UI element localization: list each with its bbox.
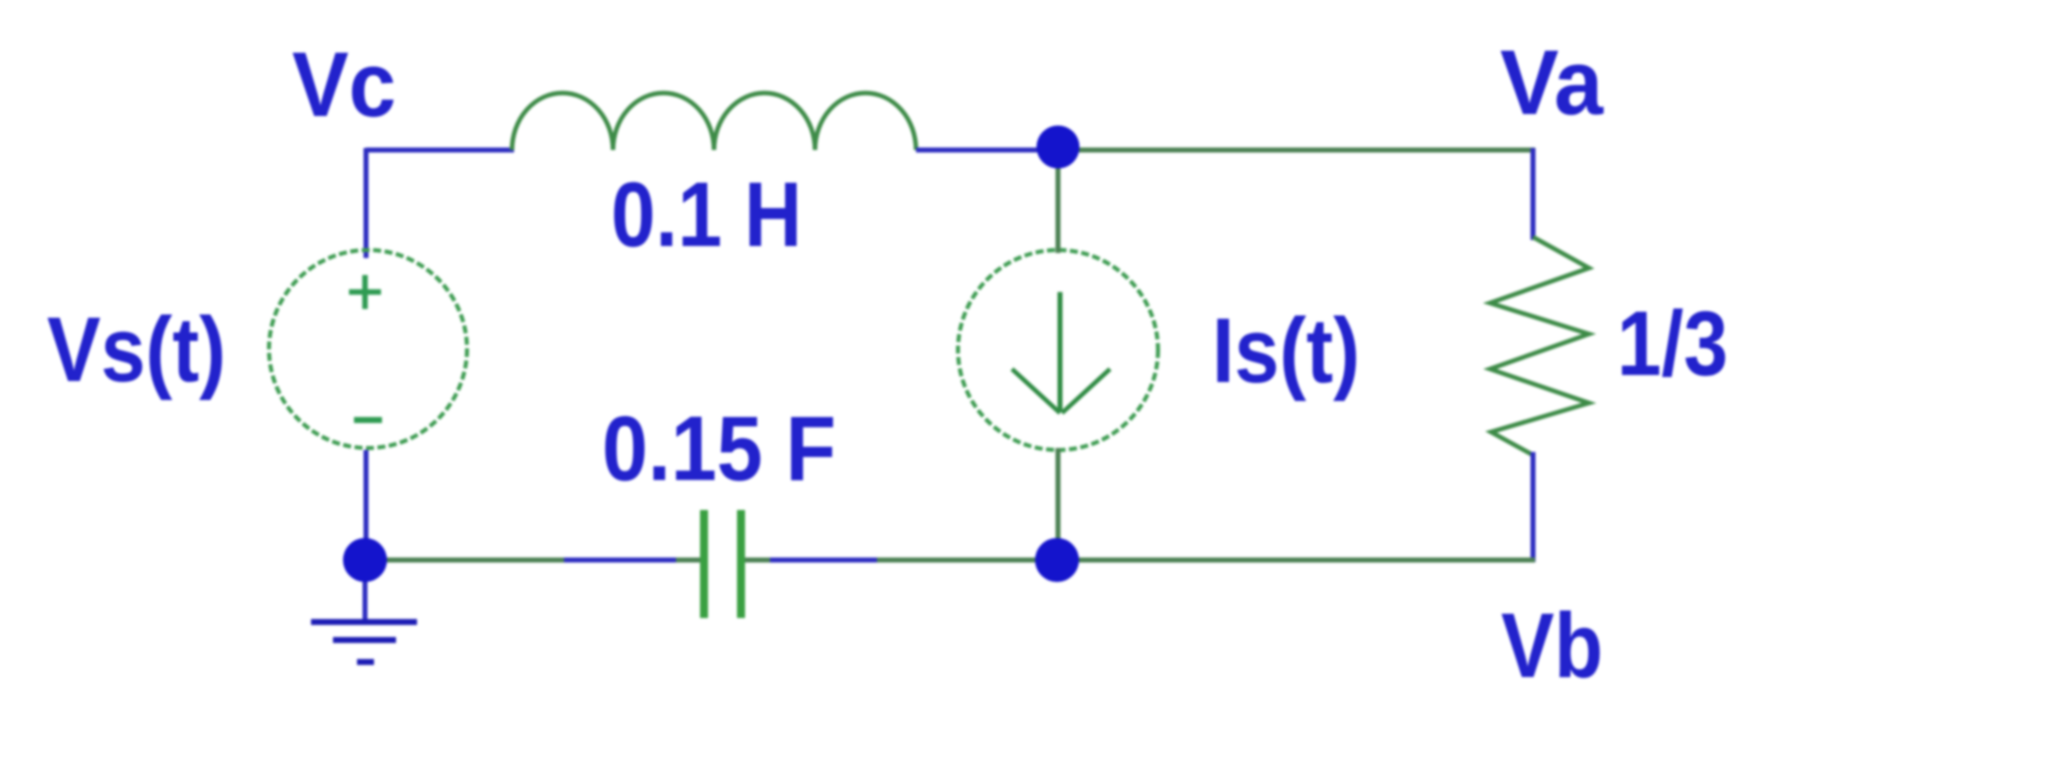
- voltage source Vs circle (green): [269, 250, 467, 448]
- wire Vc vertical down to source (blue): [364, 148, 369, 258]
- wire inductor to node A (blue): [916, 148, 1045, 153]
- wire Vc top horizontal (blue): [366, 148, 514, 153]
- wire ground stem (blue): [363, 560, 368, 622]
- wire bottom right corner to node B (green): [1057, 558, 1535, 563]
- wire node A to top-right corner (green): [1058, 148, 1535, 153]
- voltage source minus sign: [354, 417, 382, 423]
- svg-text:Va: Va: [1500, 32, 1604, 134]
- current source arrow shaft: [1058, 292, 1063, 412]
- svg-text:Vc: Vc: [292, 34, 396, 136]
- voltage source plus sign: [349, 275, 381, 309]
- wire capacitor left plate to node G (green): [365, 558, 702, 563]
- svg-text:Is(t): Is(t): [1212, 300, 1360, 402]
- wire current source down to node B (green): [1056, 448, 1061, 560]
- svg-text:1/3: 1/3: [1617, 293, 1728, 395]
- wire blue overlay right of capacitor: [770, 558, 877, 563]
- svg-text:Vs(t): Vs(t): [47, 299, 226, 401]
- wire node B to capacitor right plate (green): [743, 558, 1057, 563]
- ground symbol (blue bars): [311, 619, 417, 625]
- svg-text:0.15 F: 0.15 F: [602, 398, 836, 500]
- capacitor C1 0.15 F plates (green): [700, 510, 708, 618]
- current source arrowhead: [1012, 369, 1110, 413]
- svg-text:Vb: Vb: [1501, 595, 1603, 697]
- wire blue overlay left of capacitor: [564, 558, 676, 563]
- wire resistor bottom to bottom-right corner (blue): [1531, 452, 1536, 562]
- resistor R1 1/3 zigzag (green): [1490, 237, 1589, 455]
- svg-text:0.1 H: 0.1 H: [611, 164, 802, 266]
- wire source bottom to ground node (blue): [364, 450, 369, 562]
- current source Is circle (green): [958, 250, 1158, 450]
- wire top-right corner down to resistor (blue): [1531, 148, 1536, 240]
- inductor L1 0.1 H (green humps): [512, 93, 916, 150]
- node G junction dot: [343, 538, 387, 582]
- node A junction dot: [1037, 126, 1080, 169]
- node B junction dot: [1035, 538, 1079, 582]
- wire node A down to current source (green): [1056, 150, 1061, 253]
